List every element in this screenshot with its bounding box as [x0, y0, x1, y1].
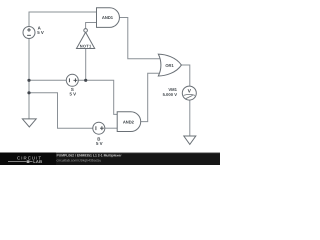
- watermark logo CircuitLab: [0, 153, 56, 166]
- voltage source V3 B: [93, 122, 105, 146]
- svg-text:5 V: 5 V: [70, 92, 77, 97]
- svg-text:AND1: AND1: [102, 15, 114, 20]
- node junction at S minus branch: [27, 79, 30, 82]
- svg-text:LAB: LAB: [33, 159, 42, 164]
- and gate AND1: [97, 8, 120, 28]
- wire NOT1 input drop: [85, 49, 87, 81]
- and gate AND2: [117, 112, 141, 132]
- voltage source V2 S: [66, 74, 78, 96]
- wire node to S minus: [29, 79, 66, 81]
- wire OR1 output to VM1: [181, 65, 189, 86]
- ground right: [184, 136, 196, 144]
- node junction at NOT1 input: [84, 79, 87, 82]
- svg-text:PUMPL062 / ENM8351 L1 2-1 Mult: PUMPL062 / ENM8351 L1 2-1 Multiplexer: [57, 154, 123, 158]
- voltage source V1 A: [23, 26, 44, 39]
- inverter NOT1: [77, 29, 95, 49]
- svg-text:NOT1: NOT1: [80, 43, 92, 48]
- node junction at B branch: [27, 91, 30, 94]
- svg-text:AND2: AND2: [123, 119, 135, 124]
- wire A top to AND1 input1: [29, 12, 97, 27]
- svg-text:5 V: 5 V: [96, 141, 103, 146]
- svg-text:OR1: OR1: [165, 63, 174, 68]
- voltmeter VM1: [163, 86, 197, 100]
- wire B plus to AND2 input2: [105, 127, 117, 129]
- wire node to B minus: [29, 93, 93, 128]
- wire NOT1 output to AND1 input2: [86, 23, 97, 29]
- or gate OR1: [158, 54, 181, 76]
- watermark bar: [0, 153, 220, 166]
- ground left: [22, 119, 36, 127]
- wire VM1 to ground: [189, 100, 191, 136]
- svg-text:5.000 V: 5.000 V: [163, 92, 178, 97]
- wire S plus to AND2 input1: [78, 80, 117, 114]
- wire A bottom to ground: [28, 39, 30, 120]
- svg-text:circuitlab.com/c/9kqh43bac5u: circuitlab.com/c/9kqh43bac5u: [57, 159, 102, 163]
- wire AND2 output to OR1 input2: [141, 73, 159, 121]
- svg-text:5 V: 5 V: [37, 30, 44, 35]
- wire AND1 output to OR1 input1: [119, 18, 159, 59]
